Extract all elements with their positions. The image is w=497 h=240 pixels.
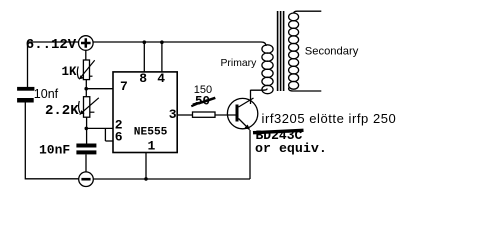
op-amp U1 NE555 body [113, 72, 177, 153]
svg-text:6..12V: 6..12V [26, 37, 77, 53]
wire junction to pin 2 [86, 127, 113, 129]
node junction pin4/supply [160, 40, 164, 44]
resistor 1K trimmer R1 [77, 60, 94, 80]
wire pin 3 to R3 [177, 114, 192, 116]
transformer T1 core [278, 11, 284, 91]
svg-text:Secondary: Secondary [305, 46, 359, 58]
wire pin 1 to ground wire [145, 153, 147, 179]
node junction pin1/ground [144, 177, 148, 181]
svg-text:8: 8 [139, 71, 147, 86]
wire lower-left rail [25, 103, 78, 179]
wire Q1 collector vertical [250, 90, 252, 104]
svg-text:3: 3 [169, 107, 177, 122]
svg-text:or equiv.: or equiv. [255, 141, 327, 156]
wire junction to pin 7 [86, 88, 113, 90]
wire C2 bottom to minus terminal [85, 154, 87, 172]
svg-text:2.2K: 2.2K [45, 103, 79, 119]
svg-text:1K: 1K [62, 65, 78, 79]
svg-text:irf3205 elötte irfp 250: irf3205 elötte irfp 250 [262, 111, 397, 126]
wire top supply segment to transformer primary [93, 42, 266, 46]
wire jumper to pin 6 [105, 140, 113, 142]
node junction R1/R2/pin7 [84, 87, 88, 91]
wire Q1 emitter vertical [249, 130, 251, 179]
wire R2 bottom to C2 [86, 117, 88, 143]
label BD243C crossed out [253, 128, 304, 143]
wire secondary top lead [294, 11, 322, 13]
wire bottom ground segment [93, 178, 250, 180]
wire secondary bottom lead [289, 88, 322, 92]
svg-text:1: 1 [148, 139, 156, 154]
capacitor C2 10nF plates [76, 144, 96, 155]
node junction R2/C2/pin2 [85, 127, 89, 131]
wire R1 bottom to R2 top [85, 80, 87, 97]
resistor R3 150 [193, 112, 216, 117]
wire pin 4 to supply [161, 42, 163, 72]
transformer T1 primary winding [262, 45, 273, 94]
svg-text:Primary: Primary [221, 58, 258, 69]
capacitor C1 10nf plates [17, 87, 34, 103]
wire pin 8 to supply [143, 42, 145, 72]
svg-text:7: 7 [120, 79, 128, 94]
label 50 crossed out [191, 95, 215, 109]
minus supply terminal [79, 172, 94, 187]
wire collector to primary bottom [251, 89, 268, 91]
svg-text:6: 6 [115, 129, 123, 144]
svg-text:NE555: NE555 [134, 127, 168, 139]
wire R3 to Q1 base [215, 114, 236, 116]
plus supply terminal [79, 36, 94, 51]
wire plus terminal to R1 top [85, 50, 87, 60]
svg-text:10nF: 10nF [39, 142, 70, 157]
svg-text:10nf: 10nf [34, 87, 59, 101]
transistor Q1 [227, 98, 257, 130]
wire upper-left rail [27, 42, 29, 87]
svg-text:4: 4 [157, 71, 165, 86]
wire jumper pin2 to pin6 [104, 128, 106, 141]
resistor 2.2K trimmer R2 [79, 97, 99, 118]
transformer T1 secondary winding [289, 13, 299, 89]
wire top supply segment left of plus terminal [28, 41, 79, 43]
node junction pin8/supply [143, 40, 147, 44]
